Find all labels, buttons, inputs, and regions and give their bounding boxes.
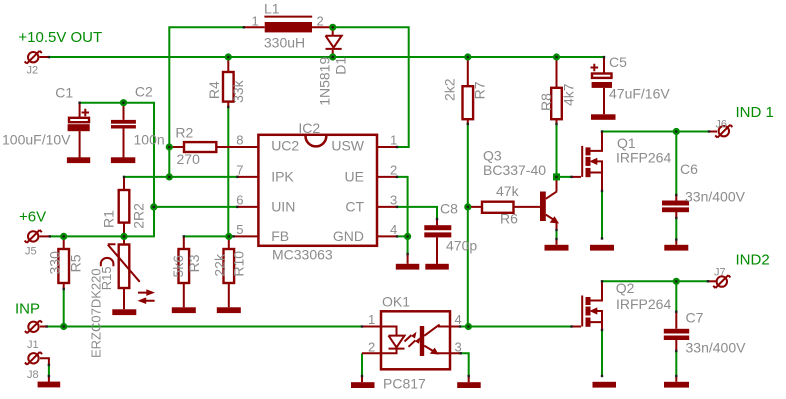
svg-text:GND: GND: [333, 228, 364, 244]
resistor R5: [46, 236, 83, 289]
svg-text:330: 330: [46, 251, 62, 275]
svg-text:270: 270: [177, 151, 201, 167]
svg-text:2: 2: [368, 339, 375, 354]
node R1/R15 junction: [120, 233, 127, 240]
node C2 top junction: [120, 99, 127, 106]
connector J2: [25, 51, 42, 64]
diode D1 1N5819: [316, 27, 348, 106]
wire J7 pin stub: [709, 280, 716, 282]
svg-text:3: 3: [455, 339, 462, 354]
wire J5 pin stub: [40, 235, 51, 237]
ground Q1 source: [590, 245, 614, 251]
node R4 top junction: [225, 53, 232, 60]
wire Q2 source to ground: [601, 330, 603, 376]
ground C2: [111, 157, 135, 163]
svg-text:4: 4: [390, 222, 397, 237]
varistor R15 ERZC07DK220: [88, 236, 155, 358]
node R7 top junction: [464, 53, 471, 60]
capacitor C2: [111, 84, 165, 158]
connector J1: [25, 320, 42, 333]
svg-text:R2: R2: [175, 125, 193, 141]
capacitor C1: [2, 84, 90, 157]
svg-text:5: 5: [236, 222, 243, 237]
wire OK1 pin2 ground drop: [361, 353, 363, 376]
wire R7 column to OK1 pin4: [467, 124, 469, 327]
svg-text:J8: J8: [27, 369, 39, 381]
wire C7 stem: [675, 281, 677, 376]
svg-text:R10: R10: [231, 251, 247, 277]
wire R5 bottom to INP: [63, 289, 65, 327]
connector J5: [25, 230, 42, 243]
svg-text:R7: R7: [471, 81, 487, 99]
resistor R8: [538, 57, 577, 124]
svg-text:R3: R3: [186, 254, 202, 272]
ground Q3: [545, 245, 569, 251]
svg-text:33n/400V: 33n/400V: [686, 339, 747, 355]
ground C6: [664, 245, 688, 251]
svg-text:MC33063: MC33063: [272, 247, 333, 263]
wire IPK row: [124, 176, 237, 178]
svg-text:47k: 47k: [496, 183, 520, 199]
svg-text:IRFP264: IRFP264: [616, 296, 671, 312]
wire L1.1 node down to IPK row: [169, 27, 244, 177]
svg-text:IRFP264: IRFP264: [616, 150, 671, 166]
svg-text:33n/400V: 33n/400V: [685, 189, 746, 205]
svg-text:22k: 22k: [212, 253, 228, 277]
svg-text:7: 7: [236, 162, 243, 177]
svg-text:C7: C7: [686, 310, 704, 326]
svg-text:2: 2: [390, 162, 397, 177]
svg-text:470p: 470p: [446, 238, 477, 254]
wire +6V: C1/C2 top, down to J5 row: [50, 103, 154, 237]
node GND/UE junction: [404, 233, 411, 240]
node FB junction: [225, 233, 232, 240]
svg-text:IPK: IPK: [271, 169, 294, 185]
node C7 junction: [673, 278, 680, 285]
capacitor C5: [591, 54, 671, 114]
node J1/R5 junction: [60, 323, 67, 330]
svg-text:3: 3: [390, 192, 397, 207]
wire FB row: [184, 235, 234, 237]
wire pin transition nubs: [46, 26, 711, 377]
wire switch node: L1.2/D1 top to USW pin1: [333, 27, 409, 147]
wire Q3 emitter to ground: [556, 230, 558, 239]
svg-text:UIN: UIN: [271, 199, 295, 215]
svg-text:100n: 100n: [134, 132, 165, 148]
wire INP row: [48, 326, 362, 328]
svg-text:1: 1: [368, 312, 375, 327]
svg-text:IC2: IC2: [298, 120, 320, 136]
svg-text:BC337-40: BC337-40: [483, 162, 546, 178]
node R5 top junction: [60, 233, 67, 240]
capacitor C7: [664, 310, 746, 382]
wire J2 pin stub: [40, 56, 50, 58]
wire +10.5V rail: [49, 56, 604, 58]
ground R10: [217, 307, 241, 313]
svg-text:C8: C8: [440, 201, 458, 217]
ground C1: [67, 157, 90, 163]
ground OK1 pin3: [457, 382, 481, 388]
svg-text:J2: J2: [27, 65, 39, 77]
svg-text:L1: L1: [264, 1, 280, 17]
svg-text:2: 2: [317, 13, 324, 28]
svg-text:R4: R4: [206, 81, 222, 99]
capacitor C8: [424, 201, 477, 265]
mosfet Q2 IRFP264: [572, 280, 672, 330]
svg-text:6: 6: [236, 192, 243, 207]
transistor Q3 BC337-40: [483, 148, 559, 245]
wire J8 pin stub and ground stem: [40, 358, 49, 382]
ground R15: [112, 309, 136, 315]
svg-text:FB: FB: [271, 228, 289, 244]
mosfet Q1 IRFP264: [572, 132, 672, 192]
node OK1 pin4 junction: [465, 323, 472, 330]
svg-text:UC2: UC2: [271, 138, 299, 154]
inductor L1: [244, 1, 333, 51]
svg-text:+10.5V OUT: +10.5V OUT: [18, 29, 102, 46]
ground C8: [425, 264, 449, 270]
svg-text:2k2: 2k2: [442, 78, 458, 101]
junction dark centers: [62, 26, 677, 328]
connector J8: [25, 352, 42, 365]
capacitor C6: [662, 161, 746, 245]
svg-text:47uF/16V: 47uF/16V: [609, 86, 670, 102]
node IPK junction: [166, 173, 173, 180]
svg-text:5k6: 5k6: [170, 255, 186, 278]
svg-text:R15: R15: [99, 266, 114, 290]
wire R8 column to Q1 gate: [557, 124, 572, 177]
svg-text:IND2: IND2: [736, 252, 770, 269]
svg-text:100uF/10V: 100uF/10V: [2, 132, 71, 148]
svg-text:J1: J1: [27, 339, 39, 351]
wire IC2 left pin stubs: [169, 147, 258, 236]
op-amp IC2 MC33063 box: [236, 120, 397, 263]
node R8 top junction: [553, 53, 560, 60]
node C6 junction: [673, 128, 680, 135]
svg-text:CT: CT: [345, 199, 364, 215]
svg-text:1: 1: [252, 13, 259, 28]
node R2 left junction: [166, 143, 173, 150]
svg-text:R5: R5: [68, 254, 84, 272]
svg-text:330uH: 330uH: [264, 34, 305, 50]
wire J8 ground drop: [48, 365, 50, 376]
svg-text:PC817: PC817: [383, 376, 426, 392]
connector J7: [713, 275, 730, 288]
resistor R2: [175, 125, 216, 167]
wire OK1 pin4 to Q2 gate: [460, 326, 572, 328]
svg-text:+6V: +6V: [19, 209, 46, 226]
svg-text:C5: C5: [609, 54, 627, 70]
svg-text:J7: J7: [714, 267, 726, 279]
svg-text:UE: UE: [345, 169, 364, 185]
svg-text:R8: R8: [538, 93, 554, 111]
wire UIN branch: [154, 206, 238, 208]
wire J6 pin stub: [709, 131, 717, 133]
svg-text:INP: INP: [15, 301, 40, 318]
svg-text:4: 4: [455, 312, 462, 327]
ground Q2 source: [593, 382, 617, 388]
svg-text:1N5819: 1N5819: [316, 57, 332, 106]
ground R3: [172, 307, 196, 313]
svg-text:4k7: 4k7: [561, 83, 577, 106]
svg-text:USW: USW: [331, 138, 364, 154]
wire IC2 GND pin ground stem: [407, 254, 409, 264]
ground OK1 pin2: [351, 382, 375, 388]
wire UE to GND pin: [397, 177, 408, 254]
svg-text:C6: C6: [680, 161, 698, 177]
node D1 bottom junction: [329, 53, 336, 60]
svg-text:J5: J5: [25, 246, 37, 258]
wire J1 pin stub: [40, 326, 48, 328]
svg-text:33k: 33k: [230, 79, 246, 103]
ground J8: [38, 382, 61, 388]
svg-text:OK1: OK1: [382, 294, 410, 310]
node L1.2/D1 junction: [329, 24, 336, 31]
wire IND2 node: [602, 280, 709, 282]
resistor R7: [442, 57, 488, 124]
wire C6 stem: [675, 132, 677, 240]
svg-text:Q2: Q2: [616, 280, 635, 296]
resistor R4: [206, 57, 246, 107]
svg-text:J6: J6: [715, 119, 727, 131]
svg-text:8: 8: [236, 133, 243, 148]
node UIN junction: [150, 203, 157, 210]
node Q1 gate junction: [553, 173, 560, 180]
wire CT to C8: [397, 207, 437, 219]
ground C5: [591, 114, 616, 120]
svg-text:1: 1: [390, 133, 397, 148]
svg-text:R6: R6: [500, 211, 518, 227]
svg-text:C1: C1: [55, 84, 73, 100]
svg-text:C2: C2: [135, 84, 153, 100]
resistor R1: [100, 177, 146, 237]
wire IC2 right pin stubs: [377, 147, 397, 236]
svg-text:R1: R1: [100, 210, 116, 228]
wire Q1 source to ground: [601, 191, 603, 239]
optocoupler OK1 PC817: [362, 294, 469, 392]
wire IND1 node: [602, 131, 709, 133]
ground IC2 GND pin: [396, 264, 420, 270]
resistor R3: [170, 236, 202, 307]
wire OK1 pin3 ground drop: [461, 353, 469, 376]
ground C7: [664, 382, 689, 388]
node R6 junction: [464, 203, 471, 210]
resistor R10: [212, 236, 247, 307]
resistor R6: [468, 183, 540, 227]
connector J6: [715, 125, 732, 138]
wire R4 feedback drop: [227, 107, 229, 236]
svg-text:IND 1: IND 1: [736, 104, 774, 121]
svg-text:2R2: 2R2: [131, 203, 147, 229]
